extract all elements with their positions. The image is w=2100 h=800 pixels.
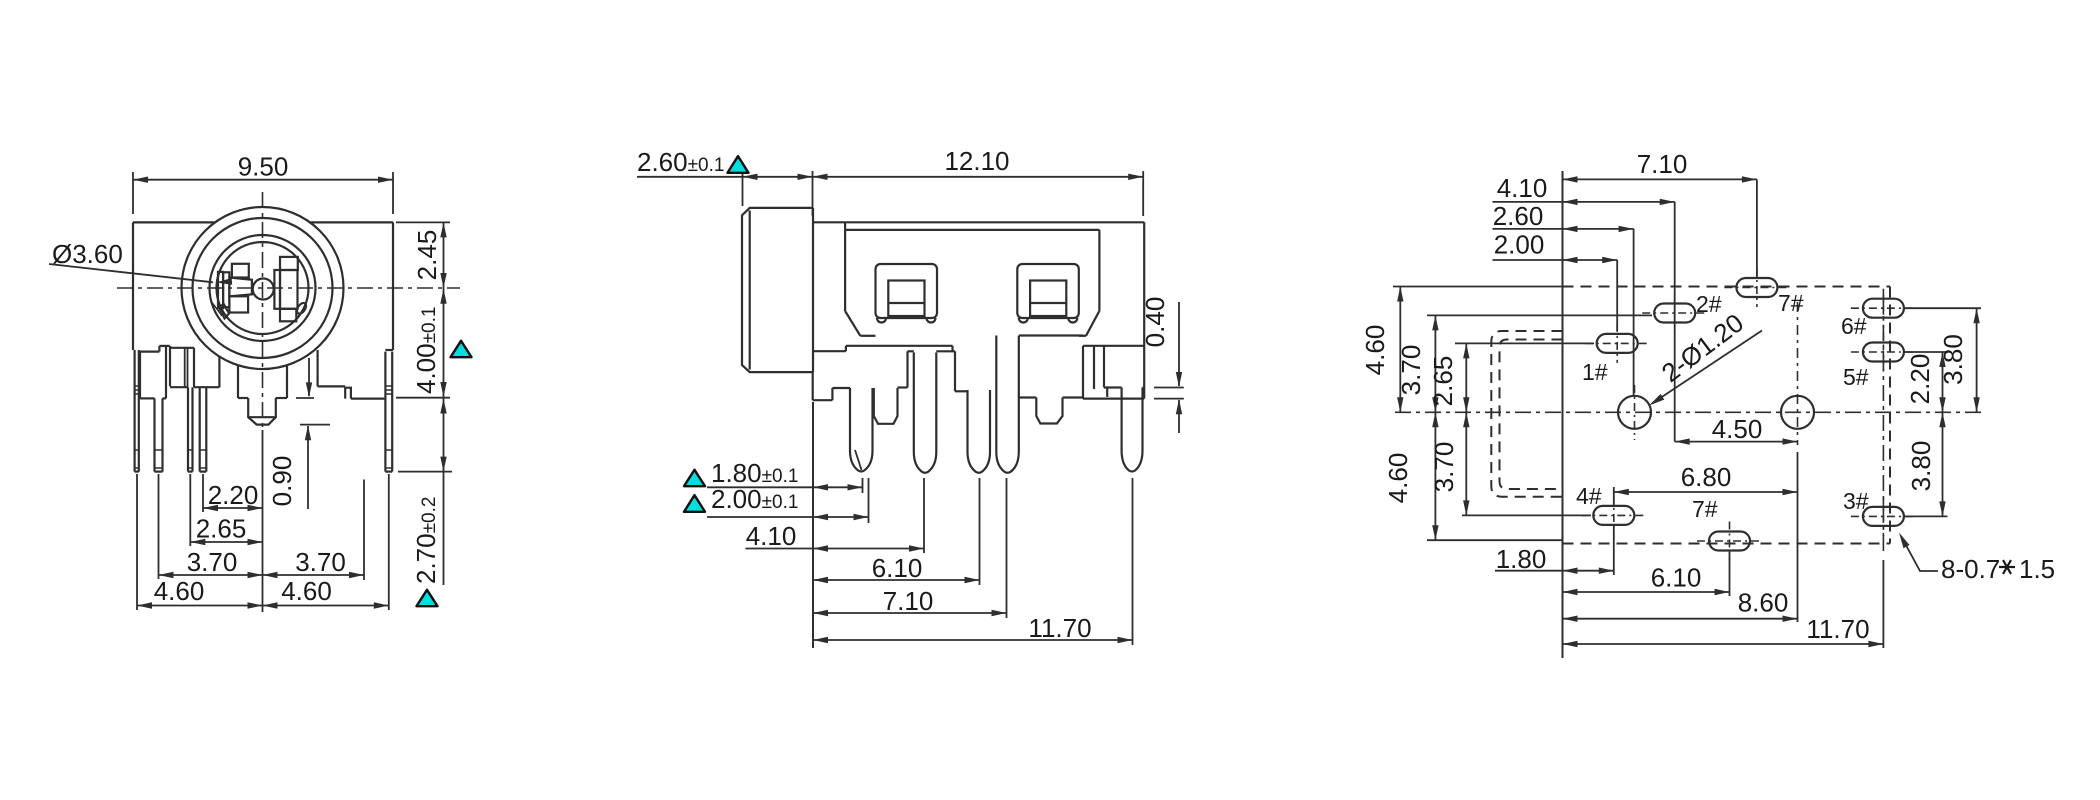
- svg-text:4.60: 4.60: [154, 576, 205, 606]
- pcb view: pad 6#: [1841, 289, 1916, 339]
- side view: dimension 2.60 with cyan triangle: [637, 147, 813, 216]
- front view: dimension 2.20: [203, 480, 263, 511]
- pcb view: left dimension extension lines: [1393, 287, 1652, 541]
- front view: dimension 4.60 right: [263, 576, 389, 609]
- side view: dimension 0.40: [1140, 297, 1184, 433]
- pcb view: dimension 3.70 lower: [1429, 412, 1470, 515]
- svg-text:7.10: 7.10: [883, 586, 934, 616]
- svg-text:6#: 6#: [1841, 313, 1867, 339]
- front view: center ball contact: [253, 279, 274, 300]
- pcb view: bottom dimension 6.10: [1563, 552, 1730, 596]
- svg-text:Ø3.60: Ø3.60: [52, 239, 123, 269]
- front view: dimension 2.65: [190, 514, 262, 546]
- side view: dimension 4.10: [746, 521, 925, 552]
- pcb view: right dimension extension lines: [1903, 308, 1981, 516]
- svg-text:8.60: 8.60: [1738, 588, 1789, 618]
- pcb view: dimension 3.80 upper: [1938, 308, 1980, 412]
- svg-text:11.70: 11.70: [1806, 614, 1869, 644]
- pcb view: mounting hole 1: [1618, 385, 1651, 440]
- front view: dimension 0.90 (nipple height): [267, 358, 330, 509]
- svg-text:2.60: 2.60: [1493, 201, 1544, 231]
- svg-text:3.70: 3.70: [295, 547, 346, 577]
- front view: cyan triangle at 4.00 dim: [451, 341, 472, 357]
- side view: dimension 7.10: [813, 586, 1007, 616]
- pcb view: pad 1#: [1582, 324, 1650, 385]
- pcb view: pad 3#: [1843, 488, 1916, 536]
- pcb view: horizontal centerline: [1395, 411, 1985, 413]
- front view: bottom-right body step and pin: [318, 350, 393, 472]
- side view: pin P1 inner edge: [855, 450, 862, 470]
- front view: connector body outline: [133, 222, 393, 350]
- svg-text:11.70: 11.70: [1028, 613, 1091, 643]
- pcb view: dimension 7.10: [1563, 149, 1757, 277]
- svg-text:8-0.7: 8-0.7: [1941, 554, 2000, 584]
- pcb view: label 8-0.7*1.5 with leader: [1899, 533, 2055, 585]
- pcb view: dimension 3.80 lower: [1906, 412, 1946, 516]
- svg-text:2.00: 2.00: [1494, 230, 1545, 260]
- side view: latch window 2: [1017, 264, 1079, 323]
- front view: left contact claw with hatch: [211, 301, 229, 319]
- pcb view: dimension 3.70 upper: [1396, 315, 1439, 412]
- side view: pin P5: [1122, 388, 1143, 472]
- svg-text:4.50: 4.50: [1712, 414, 1763, 444]
- pcb view: dimension 4.50: [1675, 414, 1798, 445]
- pcb view: vertical reference spine: [1562, 171, 1564, 658]
- svg-text:5#: 5#: [1843, 364, 1869, 390]
- svg-text:3#: 3#: [1843, 488, 1869, 514]
- side view: main body outline: [813, 222, 1144, 400]
- pcb view: dimension 6.80: [1614, 462, 1798, 505]
- svg-text:2.65: 2.65: [196, 514, 247, 544]
- pcb view: dimension 4.60 upper: [1360, 287, 1404, 413]
- pcb view: dimension 4.60 lower: [1383, 412, 1439, 540]
- svg-text:7#: 7#: [1778, 290, 1804, 316]
- side view: barrel (jack bushing): [742, 208, 813, 372]
- pcb view: pad 5#: [1843, 333, 1916, 391]
- pcb view: bottom dimension 11.70: [1563, 614, 1884, 647]
- side view: cyan triangle at 2.60: [728, 156, 749, 173]
- side view: pin P2: [914, 353, 937, 473]
- pcb view: footprint dashed outline: [1563, 287, 1891, 544]
- front view: concentric circles of jack opening: [182, 207, 344, 369]
- svg-text:3.70: 3.70: [187, 547, 238, 577]
- svg-text:4#: 4#: [1576, 483, 1602, 509]
- front view: right contact ellipse tab: [295, 301, 308, 315]
- side view: dimension 6.10: [813, 553, 980, 583]
- side view: dimension 1.80 with triangle: [684, 458, 863, 491]
- front view: right side dimension chain 2.45 / 4.00 / 2.70: [396, 222, 452, 585]
- front view: left contact assembly: [218, 264, 252, 313]
- side view: inner cavity profile: [845, 222, 1144, 398]
- svg-text:4.10: 4.10: [1497, 173, 1548, 203]
- pcb view: dimension 2.60: [1493, 201, 1634, 396]
- svg-text:7#: 7#: [1692, 496, 1718, 522]
- side view: pin P3: [968, 390, 991, 473]
- front view: cyan triangle at 2.70 dim: [417, 590, 438, 606]
- pcb view: dimension 2.20: [1905, 352, 1946, 412]
- svg-text:12.10: 12.10: [944, 146, 1009, 176]
- svg-text:0.90: 0.90: [267, 456, 297, 507]
- front view: dimension 4.60 left: [137, 576, 263, 609]
- side view: dimension 2.00 with triangle: [684, 484, 869, 520]
- pcb view: dimension 2.65: [1428, 343, 1470, 412]
- pcb view: bottom dimension 1.80: [1495, 526, 1614, 575]
- side view: latch window 1: [876, 264, 938, 323]
- side view: pin P4: [996, 336, 1019, 473]
- front view: bottom dimension extension lines: [137, 430, 389, 612]
- svg-text:7.10: 7.10: [1637, 149, 1688, 179]
- pcb view: pad 2#: [1642, 291, 1722, 333]
- side view: pin P1: [850, 388, 873, 472]
- svg-text:1.80: 1.80: [1496, 544, 1547, 574]
- svg-text:4.10: 4.10: [746, 521, 797, 551]
- svg-text:2.20: 2.20: [208, 480, 259, 510]
- svg-text:4.60: 4.60: [1360, 325, 1390, 376]
- pcb view: dimension 2.00: [1493, 230, 1618, 332]
- pcb view: pad 4#: [1576, 483, 1646, 535]
- pcb view: pad 7# bottom: [1692, 496, 1762, 561]
- side view: body ledge lines around P2 channel: [898, 351, 968, 391]
- front view: bottom center boss and nipple: [238, 365, 287, 424]
- side view: blade tab 1: [874, 388, 898, 424]
- front view: dimension 3.70 right: [263, 547, 365, 578]
- front view: right contact assembly: [274, 257, 297, 321]
- svg-text:6.80: 6.80: [1681, 462, 1732, 492]
- pcb view: pad 7# top: [1724, 268, 1803, 316]
- pcb view: right pad column centerline: [1882, 295, 1884, 648]
- pcb view: mounting hole 2: [1781, 302, 1814, 622]
- svg-text:3.80: 3.80: [1906, 441, 1936, 492]
- svg-text:2#: 2#: [1696, 291, 1722, 317]
- svg-text:2.65: 2.65: [1428, 356, 1458, 407]
- pcb view: dashed C-channel inner outline: [1491, 331, 1562, 497]
- svg-text:9.50: 9.50: [238, 152, 289, 182]
- svg-text:1#: 1#: [1582, 359, 1608, 385]
- side view: dimension 11.70: [813, 613, 1133, 643]
- front view: centerlines: [117, 192, 460, 428]
- side view: bottom edge between P4 and blade 2: [1019, 396, 1037, 398]
- pcb view: bottom dimension 8.60: [1563, 588, 1798, 622]
- front view: dimension 3.70 left: [159, 547, 263, 578]
- pcb view: dimension 4.10: [1493, 173, 1675, 442]
- side view: bottom dimension extension lines: [813, 402, 1133, 648]
- svg-text:1.5: 1.5: [2019, 554, 2055, 584]
- svg-text:6.10: 6.10: [1651, 563, 1702, 593]
- svg-text:4.60: 4.60: [281, 576, 332, 606]
- side view: bottom edge blade2 to right block: [1063, 396, 1084, 398]
- svg-text:3.70: 3.70: [1429, 442, 1459, 493]
- front view: bottom-left body step and pins: [135, 346, 220, 472]
- front view: dimension 9.50 (overall width): [133, 152, 393, 215]
- svg-text:6.10: 6.10: [872, 553, 923, 583]
- svg-text:0.40: 0.40: [1140, 297, 1170, 348]
- side view: blade tab 2: [1036, 398, 1062, 424]
- pcb view: label 2-diam-1.20 with leader: [1649, 307, 1762, 405]
- svg-text:3.70: 3.70: [1396, 345, 1426, 396]
- side view: dimension 12.10 (overall length): [813, 146, 1144, 216]
- front view: label leader Ø3.60: [49, 239, 232, 285]
- svg-text:2.45: 2.45: [412, 230, 442, 281]
- svg-text:4.60: 4.60: [1383, 453, 1413, 504]
- svg-text:2.20: 2.20: [1905, 354, 1935, 405]
